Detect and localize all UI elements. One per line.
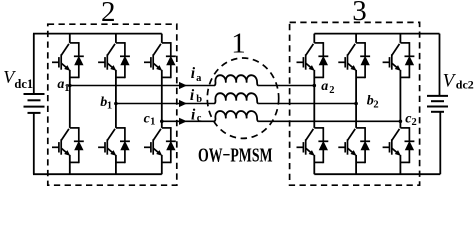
svg-text:dc1: dc1 [14,77,33,91]
IGBT S6 bottom of leg b1 [98,127,130,163]
wire: leg b1 vertical [115,34,117,175]
wire: leg c2 vertical [399,34,401,175]
svg-text:c: c [197,113,202,124]
winding phase c [214,111,259,121]
IGBT S5 top of leg c1 [144,42,176,78]
IGBT S6' bottom of leg b2 [338,127,370,163]
node c2 [399,120,403,124]
wire: leg a1 vertical [69,34,71,175]
battery V_dc1 [24,34,45,175]
current arrow i_c [179,118,187,125]
svg-text:2: 2 [412,117,417,128]
svg-text:i: i [190,87,195,104]
svg-text:a: a [196,73,202,84]
svg-text:2: 2 [373,100,378,111]
IGBT S3 top of leg b1 [98,42,130,78]
wire: leg a2 vertical [313,34,315,175]
wire: DC bus 2 bottom rail [314,173,440,175]
winding phase b [214,93,259,103]
wire: phase a from a1 to winding [70,85,214,87]
svg-text:i: i [191,106,196,123]
IGBT S5' top of leg c2 [383,42,415,78]
wire: leg c1 vertical [161,34,163,175]
dashed machine circle (OW-PMSM stator) [207,58,278,138]
svg-text:a: a [321,79,328,94]
dashed box 3 (inverter 2 boundary) [290,22,420,185]
node b2 [354,102,358,106]
current arrow i_a [179,82,187,89]
wire: phase c from winding to c2 [259,120,401,122]
IGBT S1 top of leg a1 [52,42,84,78]
winding phase a [214,75,259,85]
svg-text:2: 2 [329,85,334,96]
svg-text:V: V [443,70,457,91]
svg-text:1: 1 [64,83,69,94]
current arrow i_b [179,100,187,107]
battery V_dc2 [427,34,448,175]
svg-text:b: b [196,94,202,105]
svg-text:i: i [191,65,196,82]
IGBT S1' top of leg a2 [297,42,329,78]
IGBT S3' top of leg b2 [338,42,370,78]
svg-text:1: 1 [150,117,155,128]
wire: leg b2 vertical [355,34,357,175]
wire: DC bus 1 top rail [33,33,162,35]
wire: DC bus 2 top rail [314,33,439,35]
IGBT S2 bottom of leg c1 [144,127,176,163]
svg-text:1: 1 [107,100,112,111]
node c1 [160,120,164,124]
svg-text:2: 2 [101,0,116,28]
wire: phase b from b1 to winding [116,103,214,105]
IGBT S2' bottom of leg c2 [383,127,415,163]
wire: phase a from winding to a2 [259,85,315,87]
node a2 [313,84,317,88]
wire: phase c from c1 to winding [162,120,214,122]
IGBT S4 bottom of leg a1 [52,127,84,163]
svg-text:1: 1 [231,28,246,60]
wire: phase b from winding to b2 [259,103,357,105]
node a1 [68,84,72,88]
label V_dc2 [443,70,474,91]
svg-text:3: 3 [352,0,367,27]
label V_dc1 [3,67,33,91]
wire: DC bus 1 bottom rail [33,173,162,175]
svg-text:OW−PMSM: OW−PMSM [198,145,273,167]
node b1 [114,102,118,106]
IGBT S4' bottom of leg a2 [297,127,329,163]
dashed box 2 (inverter 1 boundary) [48,24,177,185]
svg-text:dc2: dc2 [456,78,474,92]
